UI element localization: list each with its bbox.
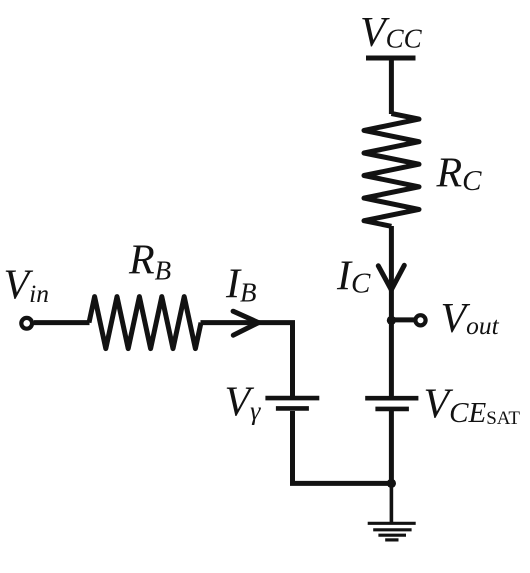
- svg-text:Vout: Vout: [441, 296, 500, 342]
- node VCC supply bar: [366, 56, 416, 61]
- battery VCEsat: [365, 398, 418, 409]
- ground stem: [390, 483, 394, 523]
- wire VCC bar to RC top: [389, 58, 394, 114]
- wire RB to corner, then down to battery Vgamma: [201, 323, 293, 396]
- resistor RB: [89, 297, 201, 349]
- svg-text:VCC: VCC: [360, 10, 423, 56]
- svg-text:Vγ: Vγ: [225, 380, 262, 426]
- svg-text:VCESAT: VCESAT: [424, 382, 521, 430]
- wire Vin terminal to RB: [34, 320, 90, 325]
- ground: [368, 523, 416, 540]
- svg-text:RC: RC: [436, 151, 483, 197]
- svg-text:IB: IB: [225, 261, 257, 307]
- battery Vgamma: [265, 398, 319, 408]
- svg-text:IC: IC: [336, 253, 371, 299]
- wire collector node down to battery VCEsat: [389, 320, 394, 396]
- terminal Vout (open circle): [415, 315, 425, 325]
- wire bottom horizontal with corner up to battery Vgamma: [293, 411, 392, 483]
- terminal Vin (open circle): [21, 318, 32, 329]
- current arrow IC: [378, 265, 404, 290]
- resistor RC: [364, 114, 419, 227]
- junction dot collector/Vout node: [387, 316, 396, 325]
- wire RC bottom to collector node: [389, 226, 394, 320]
- svg-text:Vin: Vin: [4, 262, 50, 308]
- wire collector node to Vout terminal: [391, 317, 414, 322]
- wire battery VCEsat to bottom junction: [389, 411, 394, 483]
- junction dot bottom node: [387, 479, 396, 488]
- svg-text:RB: RB: [128, 238, 171, 286]
- current arrow IB: [233, 311, 258, 335]
